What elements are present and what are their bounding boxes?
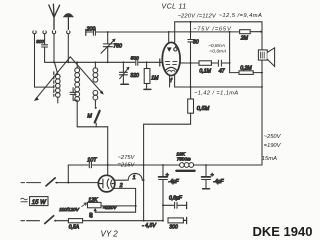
capacitor 10T (line filter): [89, 162, 91, 167]
wire: mains upper lead with plug dashes: [21, 182, 41, 184]
VCL11 beam electrode (small circle): [174, 46, 177, 51]
tap arrow 50: [94, 208, 97, 212]
wire: vertical x=190.5 anode rail to filament rail: [190, 22, 192, 87]
svg-text:DKE 1940: DKE 1940: [253, 224, 313, 239]
grid terminal bar at VCL11: [159, 59, 161, 66]
wire: screen rail y=31.8 right part: [169, 31, 262, 33]
svg-text:2M: 2M: [240, 36, 249, 42]
svg-text:M: M: [87, 114, 92, 120]
svg-text:-4μF: -4μF: [168, 179, 179, 185]
wire: screen pin into tube: [168, 32, 170, 44]
wire: grid bus y=62.3: [45, 61, 163, 63]
choke / field coil 13K 7500: [176, 163, 194, 171]
svg-text:50: 50: [89, 212, 94, 217]
wire: from 10T down to mains: [67, 165, 69, 183]
svg-text:=0,6mA: =0,6mA: [209, 49, 226, 55]
svg-text:0,8μF: 0,8μF: [169, 195, 183, 201]
wire: B+ right rail x=262: [261, 22, 263, 165]
resistor 300: [168, 217, 187, 223]
switch lower pole: [45, 216, 54, 224]
fuse bump 1: [114, 173, 143, 180]
capacitor 200: [86, 29, 169, 35]
svg-text:=190V: =190V: [264, 143, 282, 149]
wire lower mains to fuse resistor: [55, 220, 69, 222]
node dots on x=143.6: [143, 164, 145, 222]
terminal bar of 200pF input: [85, 29, 87, 35]
svg-text:7500ω: 7500ω: [177, 156, 191, 161]
svg-text:~250V: ~250V: [264, 134, 282, 140]
wire: tap bottom line: [95, 211, 135, 213]
wire: 220V tap line: [101, 205, 136, 207]
svg-text:300: 300: [36, 39, 44, 44]
capacitor 0,8uF: [163, 202, 187, 208]
svg-text:200: 200: [86, 27, 96, 33]
coil L1 (antenna coupling): [55, 63, 61, 103]
capacitor 500 (series in grid bus): [136, 59, 138, 65]
iron core (dashed) of tuning coils: [53, 72, 55, 96]
terminal T3: [52, 30, 55, 33]
terminal T2: [43, 30, 46, 33]
capacitor 300 (antenna series): [42, 34, 48, 63]
power rating box 15W: [30, 197, 48, 206]
node: grid bus junction dots: [53, 61, 147, 63]
wire: upper mains to VY2: [56, 182, 99, 184]
wire: VY2 pin2 to selector: [113, 188, 135, 212]
wire: down to rectifier node: [107, 127, 109, 176]
node dots anode rail: [190, 21, 192, 23]
svg-text:15 W: 15 W: [32, 200, 47, 206]
node dots upper mains: [56, 182, 70, 184]
switch upper pole: [46, 178, 55, 186]
svg-text:0,2M: 0,2M: [240, 65, 252, 71]
antenna: [49, 4, 60, 30]
node dot lower switch: [55, 220, 57, 222]
svg-text:~75V /=65V: ~75V /=65V: [193, 27, 232, 33]
VCL11 anode plate (triangle): [167, 48, 171, 52]
svg-text:-4μF: -4μF: [213, 179, 224, 185]
wire: mains lower lead with plug dashes: [21, 220, 40, 222]
svg-text:VY 2: VY 2: [101, 230, 119, 239]
wire: 0,5M return to bias line: [144, 124, 191, 221]
resistor 12K (heater dropper): [88, 202, 102, 207]
svg-text:VCL 11: VCL 11: [162, 4, 187, 11]
node dots on B+ rail: [107, 164, 207, 166]
svg-text:~220V /=112V: ~220V /=112V: [178, 14, 217, 20]
electrolytic 4uF (right): [202, 165, 211, 189]
wire: vertical x=229.6: [229, 32, 231, 73]
svg-text:+: +: [166, 172, 169, 178]
svg-text:1: 1: [133, 175, 136, 181]
svg-text:~0,8mA: ~0,8mA: [208, 43, 225, 49]
svg-text:≈220V: ≈220V: [103, 205, 117, 210]
trimmer capacitor 320 to ground: [119, 62, 129, 84]
switch M (wave change): [95, 107, 100, 127]
AC/DC symbol: [21, 198, 28, 202]
earth/counterpoise antenna: [64, 14, 74, 31]
wire T3 down: [53, 34, 55, 63]
capacitor (padder between L2 and L3): [70, 88, 77, 101]
VY2 cathode bar and anode arcs: [98, 179, 114, 189]
svg-text:=215V: =215V: [118, 162, 136, 168]
svg-text:500: 500: [131, 55, 139, 61]
VCL11 filament pins: [170, 75, 175, 87]
variometer arrow (tuning linkage): [34, 57, 103, 101]
resistor 0,5A (fuse): [68, 219, 82, 223]
wire T4 down: [67, 34, 69, 63]
wire: anode rail y=21.8 with corner to anode pin: [175, 22, 262, 44]
node dots y=87: [190, 86, 192, 88]
svg-text:12K: 12K: [88, 198, 98, 204]
VCL11 grids (dashes): [165, 62, 177, 65]
svg-text:- 4,5V: - 4,5V: [142, 223, 156, 229]
resistor 2M: [240, 30, 251, 34]
node dots y=63: [190, 62, 231, 64]
tube VY2 envelope: [98, 175, 115, 192]
coil L2 (tuning): [75, 62, 80, 127]
wire: B+ rail y=165: [68, 164, 262, 166]
svg-text:1M: 1M: [151, 76, 159, 82]
trimmer capacitor 780: [101, 32, 115, 62]
svg-text:300: 300: [169, 224, 178, 230]
svg-text:~12,5 /=9,4mA: ~12,5 /=9,4mA: [219, 13, 263, 19]
wire: diode anode y=63: [180, 62, 229, 64]
wire T1 down and right to coil L1: [35, 34, 54, 87]
wire: filament supply y=87: [175, 86, 262, 88]
tube VCL11 envelope: [162, 42, 180, 75]
capacitor 47: [218, 60, 221, 66]
node dot selector: [135, 205, 137, 207]
svg-text:+: +: [211, 172, 214, 178]
svg-text:0,5A: 0,5A: [69, 225, 80, 231]
terminal open-top notches: [34, 30, 70, 31]
resistor 1M (grid leak) to ground: [144, 62, 151, 89]
capacitor 30: [188, 40, 194, 42]
svg-text:~275V: ~275V: [118, 155, 136, 161]
svg-text:0,1M: 0,1M: [199, 68, 211, 74]
svg-text:~1,42 / =1,1mA: ~1,42 / =1,1mA: [194, 91, 239, 97]
speaker: [258, 48, 274, 67]
resistor 0,1M: [199, 61, 211, 66]
svg-text:15mA: 15mA: [262, 156, 277, 162]
coil L3 (reaction): [93, 62, 98, 106]
svg-text:10T: 10T: [87, 157, 97, 163]
resistor 0,2M: [230, 71, 262, 75]
node dots on screen rail: [107, 31, 262, 33]
svg-text:0,5M: 0,5M: [197, 106, 210, 112]
svg-text:320: 320: [130, 73, 139, 79]
arrow to 12K left end: [82, 203, 87, 207]
text labels top: [101, 4, 313, 239]
resistor 0,5M: [188, 87, 194, 124]
node dots on right rail: [261, 72, 263, 88]
electrolytic 4uF (left): [159, 165, 168, 221]
svg-text:30: 30: [193, 39, 199, 45]
wire: coil returns bus y=126.8: [77, 126, 108, 128]
terminal T4: [67, 30, 70, 33]
svg-text:110/120V: 110/120V: [59, 207, 80, 212]
VCL11 cathode dome and filament: [165, 67, 177, 71]
terminal T1: [33, 30, 36, 33]
wire: heater line to bias node: [83, 220, 163, 222]
svg-text:780: 780: [113, 44, 122, 50]
node dots x=163: [162, 204, 164, 221]
